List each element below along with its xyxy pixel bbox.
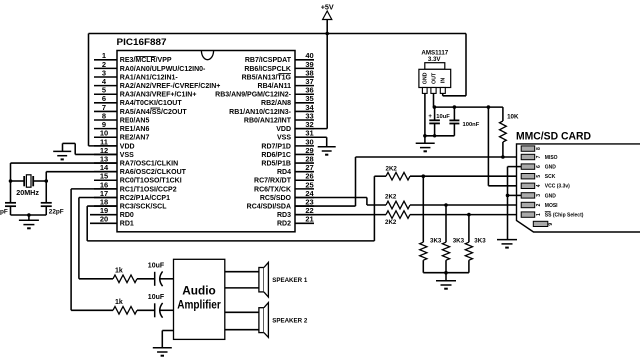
wire R2 to C4 bbox=[137, 309, 155, 311]
svg-text:100nF: 100nF bbox=[463, 122, 480, 128]
svg-text:22pF: 22pF bbox=[49, 208, 64, 215]
wire R6 to SS pin bbox=[410, 214, 522, 216]
pin 5 RA3/AN3/VREF+/C1IN+ bbox=[94, 86, 196, 99]
pin 39 RB6/ICSPCLK bbox=[244, 60, 314, 73]
svg-text:VDD: VDD bbox=[276, 126, 291, 133]
wire pin17 CCP1 to ch1 bbox=[79, 197, 117, 278]
node MISO/10K bbox=[501, 155, 505, 159]
node SCK/3K3 bbox=[422, 174, 426, 178]
pin 9 RE1/AN6 bbox=[94, 120, 149, 133]
pin 6 RA4/T0CKI/C1OUT bbox=[94, 94, 182, 107]
svg-text:4: 4 bbox=[536, 184, 542, 187]
pin 10 RE2/AN7 bbox=[94, 129, 149, 142]
regulator U3 AMS1117 bbox=[419, 50, 451, 94]
pin 15 RC0/T1OSO/T1CKI bbox=[94, 172, 182, 185]
node MOSI/3K3 bbox=[444, 203, 448, 207]
SD pin 4 VCC (3.3v) bbox=[521, 183, 570, 190]
svg-text:RC1/T1OSI/CCP2: RC1/T1OSI/CCP2 bbox=[120, 186, 177, 193]
svg-text:3K3: 3K3 bbox=[474, 238, 486, 245]
resistor R9 3K3 bbox=[465, 215, 486, 273]
svg-text:IN: IN bbox=[441, 78, 447, 83]
wire amp out1b bbox=[225, 287, 259, 289]
svg-text:RB3/AN9/PGM/C12IN2-: RB3/AN9/PGM/C12IN2- bbox=[215, 92, 292, 99]
wire 3K3 common bbox=[423, 272, 469, 274]
wire SD GND3 bbox=[508, 194, 522, 196]
svg-text:pF: pF bbox=[0, 208, 8, 215]
svg-text:8: 8 bbox=[536, 147, 542, 150]
svg-text:SPEAKER 2: SPEAKER 2 bbox=[272, 317, 308, 324]
wire crystal right lead bbox=[33, 180, 46, 182]
wire gnd stem bbox=[424, 136, 426, 144]
wire amp out2a bbox=[225, 311, 259, 313]
wire to crystal ground bbox=[28, 215, 30, 220]
svg-text:RB7/ICSPDAT: RB7/ICSPDAT bbox=[245, 57, 292, 64]
wire amp out1a bbox=[225, 271, 259, 273]
svg-text:VDD: VDD bbox=[120, 143, 135, 150]
svg-text:RA3/AN3/VREF+/C1IN+: RA3/AN3/VREF+/C1IN+ bbox=[120, 92, 197, 99]
svg-text:MMC/SD CARD: MMC/SD CARD bbox=[516, 130, 591, 142]
node GND leg junction bbox=[423, 134, 427, 138]
pin 30 RD7/P1D bbox=[261, 137, 314, 150]
SD pin 1 SS (Chip Select) bbox=[521, 212, 584, 219]
svg-text:SCK: SCK bbox=[545, 174, 556, 180]
pin 24 RC5/SDO bbox=[260, 189, 315, 202]
pin 27 RD4 bbox=[277, 163, 314, 176]
wire R4 to SCK pin bbox=[410, 175, 522, 177]
svg-text:RD1: RD1 bbox=[120, 221, 134, 228]
wire crystal left lead bbox=[11, 180, 24, 182]
svg-text:3K3: 3K3 bbox=[453, 238, 465, 245]
resistor R6 2K2 bbox=[385, 211, 410, 226]
pin 40 RB7/ICSPDAT bbox=[245, 51, 314, 64]
svg-text:RB4/AN11: RB4/AN11 bbox=[258, 83, 292, 90]
wire GND leg down bbox=[424, 93, 426, 135]
pin 28 RD5/P1B bbox=[261, 154, 314, 167]
pin 14 RA6/OSC2/CLKOUT bbox=[94, 163, 187, 176]
svg-text:RC0/T1OSO/T1CKI: RC0/T1OSO/T1CKI bbox=[120, 178, 182, 185]
svg-text:20: 20 bbox=[100, 215, 108, 224]
svg-text:RE2/AN7: RE2/AN7 bbox=[120, 135, 150, 142]
svg-text:GND: GND bbox=[545, 193, 557, 199]
wire amp out2b bbox=[225, 329, 259, 331]
svg-text:RA1/AN1/C12IN1-: RA1/AN1/C12IN1- bbox=[120, 74, 179, 81]
+5V power symbol bbox=[321, 3, 334, 34]
wire SD GND6 bbox=[508, 167, 522, 240]
wire C3 to amp bbox=[160, 278, 173, 280]
amplifier U2 Audio Amplifier bbox=[174, 259, 225, 339]
svg-text:10uF: 10uF bbox=[148, 294, 165, 301]
svg-text:RA4/T0CKI/C1OUT: RA4/T0CKI/C1OUT bbox=[120, 100, 183, 107]
pin 8 RE0/AN5 bbox=[94, 111, 149, 124]
svg-text:RA0/AN0/ULPWU/C12IN0-: RA0/AN0/ULPWU/C12IN0- bbox=[120, 66, 206, 73]
svg-text:SPEAKER 1: SPEAKER 1 bbox=[272, 277, 308, 284]
svg-text:RC4/SDI/SDA: RC4/SDI/SDA bbox=[247, 203, 291, 210]
svg-text:GND: GND bbox=[545, 165, 557, 171]
svg-text:Amplifier: Amplifier bbox=[177, 297, 221, 311]
svg-text:20MHz: 20MHz bbox=[16, 188, 39, 197]
svg-text:RD0: RD0 bbox=[120, 212, 134, 219]
SD pin 3 GND bbox=[521, 193, 556, 200]
svg-text:RA7/OSC1/CLKIN: RA7/OSC1/CLKIN bbox=[120, 160, 178, 167]
pin 29 RD6/P1C bbox=[261, 146, 314, 159]
pin 23 RC4/SDI/SDA bbox=[247, 197, 314, 210]
wire amp ground bbox=[162, 331, 173, 348]
resistor R2 1k bbox=[113, 299, 137, 314]
svg-text:RD5/P1B: RD5/P1B bbox=[261, 160, 291, 167]
pin 34 RB1/AN10/C12IN3- bbox=[229, 103, 314, 116]
wire 3K3 gnd stem bbox=[445, 273, 447, 281]
ground regulator bbox=[416, 143, 435, 151]
ground pulldowns bbox=[436, 281, 456, 289]
speaker SPEAKER 2 bbox=[259, 303, 308, 338]
pin 16 RC1/T1OSI/CCP2 bbox=[94, 180, 177, 193]
svg-text:RE1/AN6: RE1/AN6 bbox=[120, 126, 150, 133]
pin 13 RA7/OSC1/CLKIN bbox=[94, 154, 178, 167]
svg-text:RE0/AN5: RE0/AN5 bbox=[120, 117, 150, 124]
SD pin 2 MOSI bbox=[521, 202, 558, 209]
svg-text:OUT: OUT bbox=[431, 72, 437, 84]
connector J1 MMC/SD CARD outline bbox=[516, 130, 640, 232]
ground crystal bbox=[19, 220, 39, 228]
pin 21 RD2 bbox=[277, 215, 314, 228]
capacitor C6 100nF bbox=[449, 107, 479, 136]
svg-text:RC3/SCK/SCL: RC3/SCK/SCL bbox=[120, 203, 167, 210]
svg-text:Audio: Audio bbox=[182, 284, 216, 298]
pin 25 RC6/TX/CK bbox=[254, 180, 314, 193]
capacitor C1 22pF bbox=[0, 181, 16, 215]
svg-text:1k: 1k bbox=[115, 299, 123, 306]
node VCC drop bbox=[487, 105, 491, 109]
SD pin 8 bbox=[521, 146, 542, 151]
svg-text:+5V: +5V bbox=[321, 3, 334, 12]
SD pin 6 GND bbox=[521, 164, 556, 171]
svg-text:1k: 1k bbox=[115, 268, 123, 275]
svg-text:RB5/AN13/T1G: RB5/AN13/T1G bbox=[242, 74, 292, 81]
pin 12 VSS bbox=[94, 146, 134, 159]
svg-text:2K2: 2K2 bbox=[385, 219, 397, 226]
pin 3 RA1/AN1/C12IN1- bbox=[94, 68, 178, 81]
node 3K3 common bbox=[444, 271, 448, 275]
svg-text:RE3/MCLR/VPP: RE3/MCLR/VPP bbox=[120, 57, 172, 64]
node crystal left bbox=[9, 179, 13, 183]
svg-text:10K: 10K bbox=[507, 113, 519, 120]
svg-text:RB1/AN10/C12IN3-: RB1/AN10/C12IN3- bbox=[229, 109, 292, 116]
svg-text:9: 9 bbox=[548, 223, 554, 226]
svg-text:GND: GND bbox=[423, 72, 429, 84]
svg-text:PIC16F887: PIC16F887 bbox=[117, 37, 167, 48]
crystal X1 20MHz bbox=[16, 175, 39, 197]
wire R1 to C3 bbox=[137, 278, 155, 280]
capacitor C4 10uF bbox=[148, 294, 165, 318]
wire OSC2 pin14 bbox=[46, 172, 117, 181]
node SS/3K3 bbox=[467, 213, 471, 217]
pin 31 VSS bbox=[277, 129, 314, 142]
wire pin31 VSS to ground bbox=[295, 137, 327, 146]
wire 3.3V rail bbox=[434, 106, 503, 108]
resistor R5 2K2 bbox=[385, 194, 410, 209]
wire crystal caps common bbox=[11, 214, 47, 216]
svg-text:RD4: RD4 bbox=[277, 169, 291, 176]
wire C4 to amp bbox=[160, 309, 173, 311]
pin 4 RA2/AN2/VREF-/CVREF/C2IN+ bbox=[94, 77, 220, 90]
SD pin 9 bbox=[533, 221, 554, 226]
svg-text:RD6/P1C: RD6/P1C bbox=[261, 152, 291, 159]
capacitor C2 22pF bbox=[41, 181, 64, 215]
svg-text:RB0/AN12/INT: RB0/AN12/INT bbox=[244, 117, 292, 124]
svg-text:+: + bbox=[428, 114, 432, 120]
pin 37 RB4/AN11 bbox=[258, 77, 314, 90]
wire +5V to VDD pin 32 bbox=[295, 34, 327, 129]
wire +5V to AMS1117 IN bbox=[443, 34, 466, 96]
resistor R8 3K3 bbox=[442, 205, 464, 273]
node OUT junction bbox=[433, 105, 437, 109]
pin 11 VDD bbox=[94, 137, 135, 150]
ground amplifier bbox=[153, 348, 172, 356]
capacitor C3 10uF bbox=[148, 263, 165, 287]
pin 20 RD1 bbox=[90, 215, 134, 228]
svg-text:SS (Chip Select): SS (Chip Select) bbox=[545, 213, 584, 219]
svg-text:6: 6 bbox=[536, 165, 542, 168]
svg-text:RD2: RD2 bbox=[277, 221, 291, 228]
node +5V / pin32 junction bbox=[325, 32, 329, 36]
svg-text:10uF: 10uF bbox=[148, 263, 165, 270]
resistor R1 1k bbox=[113, 268, 137, 283]
wire pin12 VSS to ground bbox=[63, 143, 118, 154]
wire SS from pin22 bbox=[295, 214, 386, 216]
svg-text:1: 1 bbox=[536, 213, 542, 216]
svg-text:RA5/AN4/SS/C2OUT: RA5/AN4/SS/C2OUT bbox=[120, 109, 188, 116]
speaker SPEAKER 1 bbox=[259, 262, 308, 297]
svg-text:5: 5 bbox=[536, 175, 542, 178]
wire +5V rail bbox=[89, 33, 467, 35]
svg-text:RB6/ICSPCLK: RB6/ICSPCLK bbox=[244, 66, 291, 73]
wire 3.3V to card VCC bbox=[488, 107, 521, 186]
resistor R3 10K bbox=[500, 107, 519, 157]
svg-text:RD7/P1D: RD7/P1D bbox=[261, 143, 291, 150]
svg-text:21: 21 bbox=[305, 215, 313, 224]
capacitor C5 10uF bbox=[428, 107, 450, 137]
svg-text:VCC (3.3v): VCC (3.3v) bbox=[545, 184, 570, 190]
node caps common bbox=[27, 213, 31, 217]
wire MOSI from pin24 bbox=[295, 197, 386, 205]
ground pin31 bbox=[318, 147, 336, 155]
pin 38 RB5/AN13/T1G bbox=[242, 68, 314, 81]
node crystal right bbox=[44, 179, 48, 183]
node 100nF top bbox=[453, 105, 457, 109]
pin 36 RB3/AN9/PGM/C12IN2- bbox=[215, 86, 314, 99]
pin 26 RC7/RX/DT bbox=[254, 172, 314, 185]
svg-text:3: 3 bbox=[536, 194, 542, 197]
pin 18 RC3/SCK/SCL bbox=[94, 197, 167, 210]
svg-text:RC6/TX/CK: RC6/TX/CK bbox=[254, 186, 291, 193]
wire MISO from pin23 bbox=[295, 157, 522, 206]
SD pin 7 MISO bbox=[521, 154, 557, 161]
pin 35 RB2/AN8 bbox=[261, 94, 314, 107]
svg-text:MOSI: MOSI bbox=[545, 203, 558, 209]
svg-text:2K2: 2K2 bbox=[386, 165, 398, 172]
svg-text:RC2/P1A/CCP1: RC2/P1A/CCP1 bbox=[120, 195, 170, 202]
svg-text:2K2: 2K2 bbox=[385, 194, 397, 201]
svg-text:RA6/OSC2/CLKOUT: RA6/OSC2/CLKOUT bbox=[120, 169, 187, 176]
resistor R4 2K2 bbox=[386, 165, 411, 180]
svg-text:2: 2 bbox=[536, 203, 542, 206]
svg-text:VSS: VSS bbox=[277, 135, 291, 142]
svg-text:RB2/AN8: RB2/AN8 bbox=[261, 100, 291, 107]
pin 22 RD3 bbox=[277, 206, 314, 219]
svg-text:3.3V: 3.3V bbox=[428, 56, 442, 63]
ground SD card bbox=[497, 240, 517, 248]
wire gnd rail bbox=[425, 135, 455, 137]
pin 33 RB0/AN12/INT bbox=[244, 111, 314, 124]
wire R5 to MOSI pin bbox=[410, 204, 522, 206]
svg-text:MISO: MISO bbox=[545, 155, 558, 161]
pin 17 RC2/P1A/CCP1 bbox=[94, 189, 170, 202]
svg-text:RD3: RD3 bbox=[277, 212, 291, 219]
wire +5V to VDD pin 11 bbox=[89, 34, 118, 146]
pin 32 VDD bbox=[276, 120, 314, 133]
node GND3 junction bbox=[506, 194, 510, 198]
svg-text:RA2/AN2/VREF-/CVREF/C2IN+: RA2/AN2/VREF-/CVREF/C2IN+ bbox=[120, 83, 221, 90]
svg-text:3K3: 3K3 bbox=[430, 238, 442, 245]
ground pin12 bbox=[53, 151, 71, 159]
pin 7 RA5/AN4/SS/C2OUT bbox=[94, 103, 187, 116]
svg-text:7: 7 bbox=[536, 155, 542, 158]
pin 1 RE3/MCLR/VPP bbox=[94, 51, 172, 64]
wire OSC1 pin13 bbox=[11, 163, 118, 181]
wire SCK from pin18 bbox=[87, 176, 386, 241]
pin 2 RA0/AN0/ULPWU/C12IN0- bbox=[94, 60, 206, 73]
svg-text:RC5/SDO: RC5/SDO bbox=[260, 195, 292, 202]
IC U1 PIC16F887 body bbox=[117, 37, 296, 232]
wire pin16 CCP2 to ch2 bbox=[71, 189, 117, 310]
svg-text:VSS: VSS bbox=[120, 152, 134, 159]
wire OUT to 3.3V rail bbox=[433, 93, 435, 107]
svg-text:10uF: 10uF bbox=[436, 114, 450, 120]
resistor R7 3K3 bbox=[420, 176, 442, 273]
pin 19 RD0 bbox=[90, 206, 134, 219]
SD pin 5 SCK bbox=[521, 174, 556, 181]
svg-text:RC7/RX/DT: RC7/RX/DT bbox=[254, 178, 292, 185]
